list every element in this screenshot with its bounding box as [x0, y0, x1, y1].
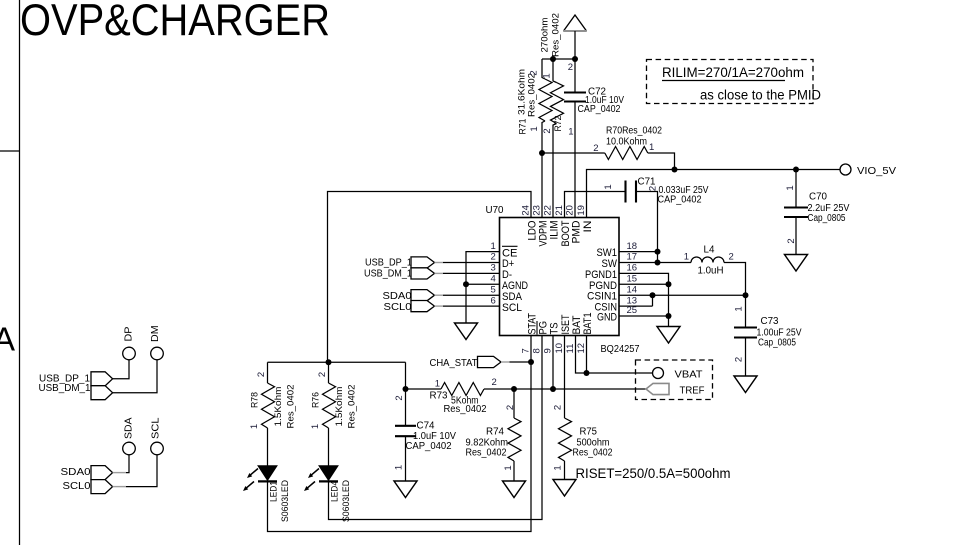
- svg-text:9: 9: [543, 348, 554, 353]
- svg-text:1: 1: [785, 185, 796, 190]
- svg-text:R74: R74: [486, 427, 505, 438]
- junction CSIN/CSIN1: [650, 292, 656, 298]
- svg-text:BAT1: BAT1: [582, 313, 594, 335]
- ground below GND pin: [657, 327, 680, 344]
- sheet border zone tick: [0, 150, 20, 152]
- svg-text:10.0Kohm: 10.0Kohm: [606, 137, 647, 148]
- svg-text:19: 19: [576, 205, 587, 216]
- svg-text:2: 2: [317, 372, 328, 377]
- svg-text:1: 1: [310, 424, 321, 429]
- pin numbers bottom 7 8 9 10 11 12: [521, 343, 588, 354]
- svg-text:Cap_0805: Cap_0805: [758, 338, 796, 349]
- svg-text:2: 2: [542, 128, 553, 133]
- svg-text:CAP_0402: CAP_0402: [578, 104, 621, 115]
- connector USB_DP_1 pigtail: [39, 360, 129, 386]
- svg-text:5: 5: [491, 284, 496, 295]
- svg-text:Cap_0805: Cap_0805: [808, 213, 846, 224]
- svg-text:LED4: LED4: [330, 481, 341, 502]
- LED LED4 S0603LED: [304, 466, 352, 522]
- svg-text:Res_0402: Res_0402: [527, 73, 538, 117]
- ground below R75: [553, 480, 576, 497]
- resistor R73 5Kohm: [406, 377, 647, 415]
- svg-text:SDA0: SDA0: [383, 291, 412, 302]
- pin numbers right 18 17 16 15 14 13 25: [627, 241, 638, 316]
- svg-text:2: 2: [593, 143, 598, 154]
- svg-text:ILIM: ILIM: [548, 221, 560, 240]
- resistor R71 31.6Kohm: [517, 59, 553, 218]
- svg-text:CAP_0402: CAP_0402: [406, 441, 452, 452]
- svg-text:18: 18: [627, 241, 638, 252]
- svg-text:GND: GND: [597, 312, 617, 324]
- resistor R70 10.0Kohm: [542, 126, 675, 170]
- wire C71 to SW node: [636, 192, 658, 263]
- capacitor C74 1.0uF 10V: [394, 389, 457, 481]
- connector SDA0 (to SDA): [383, 290, 500, 302]
- wire TS pin to node: [552, 336, 554, 390]
- connector SCL0 (to SCL): [384, 301, 500, 313]
- svg-text:A: A: [0, 321, 15, 358]
- svg-text:SDA: SDA: [124, 417, 135, 439]
- svg-text:SCL0: SCL0: [384, 302, 412, 313]
- wire power to node: [574, 31, 576, 92]
- svg-text:C74: C74: [417, 421, 436, 432]
- junction CSIN1/L4: [743, 292, 749, 298]
- svg-text:23: 23: [532, 205, 543, 216]
- svg-text:1.5Kohm: 1.5Kohm: [334, 386, 345, 426]
- svg-text:15: 15: [627, 274, 638, 285]
- svg-text:R78: R78: [250, 392, 261, 408]
- svg-text:2: 2: [729, 251, 734, 262]
- svg-text:USB_DP_1: USB_DP_1: [365, 258, 412, 269]
- svg-text:1: 1: [542, 73, 553, 78]
- svg-text:CHA_STAT: CHA_STAT: [430, 358, 479, 369]
- svg-text:L4: L4: [704, 245, 715, 256]
- svg-text:CAP_0402: CAP_0402: [658, 195, 702, 206]
- svg-text:1: 1: [503, 465, 514, 470]
- svg-text:PMD: PMD: [570, 220, 582, 243]
- svg-text:2: 2: [568, 62, 573, 73]
- svg-text:Res_0402: Res_0402: [466, 447, 507, 458]
- svg-text:1: 1: [394, 465, 405, 470]
- svg-text:1.5Kohm: 1.5Kohm: [273, 386, 284, 426]
- svg-text:R70Res_0402: R70Res_0402: [606, 126, 662, 137]
- svg-text:1: 1: [529, 126, 540, 131]
- connector USB_DM_1 (to D-): [364, 268, 500, 280]
- svg-text:SCL: SCL: [150, 417, 161, 439]
- junction STAT / CHA_STAT: [528, 359, 534, 365]
- svg-text:1: 1: [249, 424, 260, 429]
- svg-text:as close to the PMID: as close to the PMID: [700, 87, 821, 102]
- ground AGND: [455, 323, 478, 340]
- svg-text:1: 1: [603, 184, 614, 189]
- svg-text:Res_0402: Res_0402: [573, 447, 613, 458]
- junction AGND: [463, 281, 469, 287]
- pin names top LDO VDPM ILIM BOOT PMD IN: [526, 220, 594, 246]
- wire CE to AGND ground: [466, 252, 500, 323]
- svg-text:SCL0: SCL0: [63, 481, 91, 492]
- svg-text:TS: TS: [548, 323, 560, 335]
- node power/R71/R72/C72: [542, 58, 575, 60]
- junction SW: [655, 260, 661, 266]
- junction TS pin: [550, 386, 556, 392]
- terminal DP: [123, 326, 136, 359]
- svg-text:2: 2: [394, 395, 405, 400]
- svg-text:2: 2: [256, 372, 267, 377]
- svg-text:10: 10: [554, 343, 565, 354]
- svg-text:2: 2: [553, 405, 564, 410]
- junction SW1: [655, 249, 661, 255]
- svg-text:2: 2: [529, 70, 540, 75]
- junction R74: [511, 386, 517, 392]
- svg-text:R76: R76: [311, 392, 322, 408]
- inductor L4 1.0uH: [684, 245, 734, 277]
- capacitor C71 0.033uF 25V: [603, 177, 709, 206]
- resistor R75 500ohm: [553, 336, 613, 480]
- junction VDPM/R70: [539, 150, 545, 156]
- junction LED rail / R76: [326, 359, 332, 365]
- svg-text:16: 16: [627, 263, 638, 274]
- svg-text:1: 1: [553, 465, 564, 470]
- connector SCL0 pigtail: [63, 455, 158, 494]
- connector USB_DP_1 (to D+): [365, 257, 500, 269]
- svg-text:3: 3: [491, 263, 496, 274]
- svg-text:VBAT: VBAT: [675, 369, 704, 380]
- connector SDA0 pigtail: [61, 455, 130, 480]
- svg-text:TREF: TREF: [680, 385, 705, 396]
- terminal SCL: [150, 417, 163, 455]
- pin names bottom STAT PG TS ISET BAT BAT1: [526, 313, 594, 335]
- ground below C73: [734, 376, 757, 393]
- wire LDO net to LED rail: [328, 192, 532, 363]
- svg-text:2: 2: [734, 357, 745, 362]
- svg-text:1: 1: [649, 142, 654, 153]
- svg-text:C73: C73: [761, 316, 780, 327]
- svg-text:R75: R75: [580, 427, 598, 438]
- svg-text:BQ24257: BQ24257: [601, 344, 640, 355]
- junction BAT1: [584, 370, 590, 376]
- pin numbers left 1-6: [491, 241, 496, 306]
- wire PGND1/PGND/GND net: [619, 273, 669, 326]
- svg-text:1: 1: [684, 251, 689, 262]
- capacitor C70 2.2uF 25V: [784, 170, 850, 255]
- svg-text:2: 2: [648, 186, 659, 191]
- LED LED1 S0603LED: [243, 466, 291, 522]
- terminal VIO_5V: [840, 164, 851, 175]
- svg-text:S0603LED: S0603LED: [341, 480, 352, 522]
- svg-text:USB_DM_1: USB_DM_1: [39, 383, 91, 394]
- svg-text:SDA0: SDA0: [61, 467, 91, 478]
- pin names right SW1 SW PGND1 PGND CSIN1 CSIN GND: [585, 247, 618, 323]
- svg-text:12: 12: [576, 343, 587, 354]
- svg-text:6: 6: [491, 295, 496, 306]
- junction R70/VIO rail: [672, 167, 678, 173]
- junction TS node / C74: [403, 386, 409, 392]
- wire SW1 stub: [619, 251, 658, 253]
- svg-text:1: 1: [568, 127, 573, 138]
- connector CHA_STAT: [430, 356, 532, 368]
- svg-text:Res_0402: Res_0402: [286, 385, 297, 429]
- svg-text:1: 1: [734, 306, 745, 311]
- pin names left CE D+ D- AGND SDA SCL: [502, 246, 528, 313]
- resistor R78 1.5Kohm: [249, 362, 297, 466]
- svg-text:USB_DM_1: USB_DM_1: [364, 269, 412, 280]
- svg-text:RISET=250/0.5A=500ohm: RISET=250/0.5A=500ohm: [576, 466, 731, 482]
- svg-text:IN: IN: [582, 220, 594, 232]
- terminal DM: [150, 325, 163, 359]
- svg-text:25: 25: [627, 305, 638, 316]
- wire SW stub: [619, 262, 691, 264]
- svg-text:S0603LED: S0603LED: [280, 480, 291, 522]
- ground below R74: [503, 481, 526, 498]
- svg-text:R71: R71: [518, 119, 529, 135]
- svg-text:270ohm: 270ohm: [540, 17, 551, 52]
- wire BOOT to C71: [565, 192, 626, 218]
- power symbol (input supply): [564, 15, 587, 31]
- svg-text:7: 7: [521, 348, 532, 353]
- svg-text:20: 20: [565, 205, 576, 216]
- wire VIO_5V rail: [587, 170, 841, 218]
- connector USB_DM_1 pigtail: [39, 360, 158, 400]
- wire rail down to TS node: [405, 362, 407, 389]
- svg-text:1: 1: [491, 241, 496, 252]
- dashed box VBAT TREF: [636, 360, 713, 400]
- svg-text:2: 2: [492, 377, 497, 388]
- svg-text:DM: DM: [150, 325, 161, 342]
- capacitor C73 1.00uF 25V: [734, 306, 802, 376]
- wire LED1 return to STAT: [268, 336, 532, 532]
- svg-text:Res_0402: Res_0402: [551, 13, 562, 57]
- svg-text:8: 8: [532, 348, 543, 353]
- svg-text:RILIM=270/1A=270ohm: RILIM=270/1A=270ohm: [662, 65, 804, 80]
- wire BAT net to VBAT: [576, 336, 653, 374]
- svg-text:Res_0402: Res_0402: [444, 404, 487, 415]
- wire LED rail: [268, 361, 406, 363]
- svg-text:OVP&CHARGER: OVP&CHARGER: [20, 0, 330, 45]
- svg-text:4: 4: [491, 274, 496, 285]
- ground below C74: [394, 481, 417, 498]
- sheet border left line: [19, 0, 21, 545]
- svg-text:11: 11: [565, 344, 576, 354]
- pin numbers top 24 23 22 21 20 19: [521, 205, 588, 216]
- wire L4 to C73: [724, 263, 746, 328]
- resistor R72 270ohm: [540, 13, 565, 218]
- resistor R76 1.5Kohm: [310, 362, 358, 466]
- terminal SDA: [123, 417, 136, 454]
- svg-text:VIO_5V: VIO_5V: [857, 166, 896, 177]
- ground below C70: [785, 255, 808, 272]
- capacitor C72 1.0uF 10V: [564, 62, 624, 218]
- svg-text:R73: R73: [430, 390, 449, 401]
- svg-text:22: 22: [543, 205, 554, 216]
- svg-text:24: 24: [521, 205, 532, 216]
- svg-text:14: 14: [627, 284, 638, 295]
- svg-text:21: 21: [554, 205, 565, 216]
- op-amp U70 BQ24257 chip body: [500, 218, 620, 336]
- resistor R74 9.82Kohm: [466, 389, 522, 481]
- svg-text:2: 2: [491, 252, 496, 263]
- svg-text:1: 1: [435, 379, 440, 390]
- svg-text:C70: C70: [809, 192, 828, 203]
- svg-text:2: 2: [786, 238, 797, 243]
- svg-text:Res_0402: Res_0402: [347, 385, 358, 429]
- svg-text:DP: DP: [124, 326, 135, 341]
- wire CSIN net: [619, 295, 653, 306]
- note box RILIM: [647, 60, 822, 104]
- svg-text:2: 2: [505, 405, 516, 410]
- wire CSIN1 net: [619, 294, 746, 296]
- junction C70/VIO rail: [793, 167, 799, 173]
- svg-text:R72: R72: [553, 116, 564, 132]
- connector TREF: [646, 383, 669, 394]
- terminal VBAT: [653, 368, 664, 379]
- svg-text:SCL: SCL: [502, 302, 522, 314]
- svg-text:LED1: LED1: [269, 481, 280, 502]
- svg-text:1.0uH: 1.0uH: [698, 265, 724, 276]
- svg-text:17: 17: [627, 252, 638, 263]
- wire LED4 return to PG: [329, 336, 543, 520]
- svg-text:U70: U70: [486, 205, 504, 216]
